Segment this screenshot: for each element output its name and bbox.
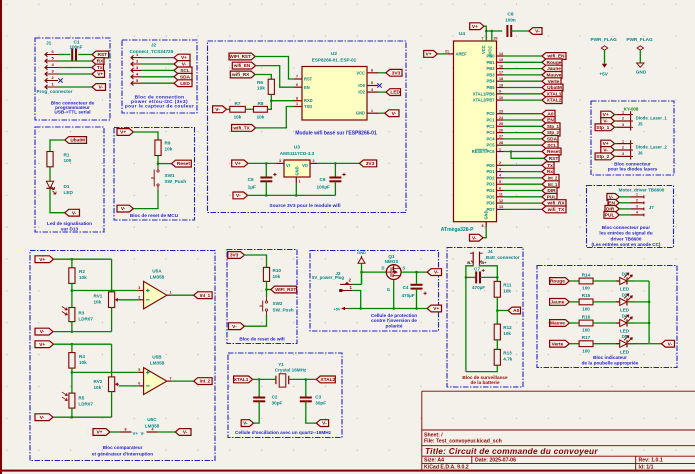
svg-text:PC3: PC3: [487, 130, 496, 135]
svg-text:6: 6: [296, 83, 298, 87]
wire to U5B +in: [72, 371, 139, 373]
wire D2 to bus: [627, 280, 649, 282]
svg-text:GND: GND: [294, 166, 299, 175]
junction divider 2: [71, 371, 74, 374]
wire C7 right: [480, 276, 497, 278]
label PUL: [542, 193, 557, 200]
junction C2 top: [258, 378, 261, 381]
svg-text:VCC: VCC: [356, 70, 365, 75]
svg-text:2: 2: [622, 117, 624, 121]
wire R10 to SW2: [266, 281, 268, 297]
svg-text:18: 18: [499, 77, 503, 81]
label RX: [92, 58, 104, 65]
wire V- to R7: [227, 108, 230, 110]
svg-text:pour le capteur de couleur: pour le capteur de couleur: [125, 104, 194, 110]
svg-text:100nF: 100nF: [70, 45, 83, 50]
wire to C7 left: [466, 276, 476, 278]
junction C7 left: [465, 276, 468, 279]
label Reset: [542, 148, 561, 155]
label Tx: [542, 162, 554, 169]
U4 pin 19: [497, 87, 504, 89]
svg-text:1: 1: [296, 102, 298, 106]
svg-text:V-: V-: [243, 421, 248, 427]
wire to C2: [258, 379, 260, 397]
svg-text:15: 15: [499, 58, 503, 62]
svg-text:Rouge: Rouge: [550, 279, 565, 285]
svg-text:R2: R2: [79, 269, 85, 274]
svg-text:R16: R16: [582, 314, 591, 319]
svg-text:U4: U4: [459, 31, 465, 37]
wire Y1 to XTAL2: [289, 378, 317, 380]
svg-text:3: 3: [622, 123, 624, 127]
wire R14 to D2: [593, 280, 620, 282]
svg-text:D2: D2: [622, 271, 628, 276]
label WIFI_RST: [229, 53, 255, 60]
resistor R1: [47, 152, 53, 167]
connector J1 pin 3: [45, 72, 58, 76]
wire V- to J7: [619, 196, 630, 198]
label V-: [35, 328, 53, 335]
wire J4- down: [466, 265, 473, 372]
label V-: [229, 323, 245, 330]
connector J5 pin 3: [617, 126, 631, 128]
wire D4 to bus: [627, 322, 649, 324]
label Rouge: [542, 59, 562, 66]
wire flag to +5V: [604, 50, 606, 64]
wire to C6: [334, 163, 336, 177]
svg-text:4.7k: 4.7k: [503, 357, 512, 362]
wire PB5 to UbatM: [504, 87, 543, 89]
wire J4+ to R11: [480, 265, 498, 282]
svg-text:XTAL1: XTAL1: [234, 377, 249, 383]
U5B pin 5: [139, 371, 144, 373]
label Int_2: [194, 378, 212, 385]
svg-text:Bloc de reset de wifi: Bloc de reset de wifi: [239, 336, 284, 341]
svg-text:PB2: PB2: [487, 66, 496, 71]
svg-text:V+: V+: [235, 161, 241, 167]
wire to C5: [265, 163, 267, 177]
wire V- rail: [248, 194, 336, 196]
svg-text:V-: V-: [322, 421, 327, 427]
power symbol +5V arrow: [602, 64, 607, 68]
svg-text:V+: V+: [120, 130, 126, 136]
connector J5 pin 1: [617, 114, 631, 116]
svg-text:XTAL2: XTAL2: [547, 98, 562, 104]
wire PD5 to PUL: [504, 196, 543, 198]
svg-text:17: 17: [499, 71, 503, 75]
wire J1.1 to V-: [58, 86, 92, 88]
junction GND-D node: [360, 271, 363, 274]
wire EN to J7: [619, 202, 630, 204]
capacitor C5: [260, 173, 276, 181]
label V-: [241, 420, 253, 427]
svg-text:V-: V-: [668, 341, 673, 347]
wire R3 to rail: [71, 322, 73, 332]
svg-text:R13: R13: [503, 351, 512, 356]
svg-text:SW_Push: SW_Push: [165, 179, 187, 184]
svg-text:8: 8: [125, 428, 127, 432]
svg-text:100n: 100n: [505, 18, 516, 23]
svg-text:R5: R5: [78, 396, 84, 401]
label V-: [316, 420, 328, 427]
svg-text:470µF: 470µF: [402, 293, 415, 298]
svg-text:WIFI_RST: WIFI_RST: [229, 54, 251, 59]
junction AVCC node: [491, 30, 494, 33]
label XTAL2: [542, 97, 562, 104]
svg-text:de la batterie: de la batterie: [471, 380, 500, 385]
svg-text:RESET/PC6: RESET/PC6: [472, 149, 495, 154]
svg-text:J5: J5: [638, 122, 643, 127]
junction C6 top: [334, 162, 337, 165]
svg-text:16: 16: [499, 64, 503, 68]
label Verte: [542, 78, 561, 85]
resistor R14: [579, 278, 593, 284]
label wifi_EN: [232, 62, 255, 69]
svg-text:+5V: +5V: [599, 72, 608, 77]
U5B pin 7: [167, 380, 172, 382]
page border bottom: [0, 470, 695, 472]
wire R7 to R8: [245, 108, 253, 110]
svg-text:LED: LED: [620, 287, 630, 292]
junction C5 bottom: [265, 194, 268, 197]
svg-text:File: Test_convoyeur.kicad_sch: File: Test_convoyeur.kicad_sch: [424, 439, 502, 445]
led D4: [616, 314, 633, 326]
svg-text:10: 10: [499, 96, 503, 100]
connector J2 pin 1: [131, 55, 141, 59]
capacitor C4: [411, 285, 427, 295]
connector J1 pin 4: [45, 65, 58, 69]
wire 3V3 to R10: [244, 255, 266, 267]
svg-text:GND: GND: [357, 250, 366, 255]
label V+: [35, 341, 54, 348]
svg-text:3: 3: [622, 152, 624, 156]
svg-text:Jaune: Jaune: [551, 300, 565, 306]
svg-text:Reset: Reset: [177, 161, 190, 167]
wire Stp_2 to J6: [615, 155, 617, 157]
svg-text:les entrées de signal du: les entrées de signal du: [599, 231, 652, 236]
wire RV2 to rail: [111, 392, 113, 418]
svg-text:J6: J6: [638, 151, 643, 156]
svg-text:V+: V+: [96, 430, 102, 436]
svg-text:C7: C7: [474, 267, 480, 272]
wire RESET/PC6 to Reset: [504, 151, 543, 153]
svg-text:25: 25: [499, 122, 503, 126]
svg-text:PB4: PB4: [487, 79, 496, 84]
connector J6 pin 1: [617, 143, 631, 145]
potentiometer RV2: [109, 377, 119, 392]
U4 pin 10: [497, 99, 504, 101]
resistor R7: [230, 106, 246, 112]
label LED: [386, 89, 401, 96]
U2 right pin 3: [367, 91, 378, 93]
svg-text:R11: R11: [503, 283, 512, 288]
label SDA: [174, 73, 192, 80]
label Mauve: [550, 320, 570, 327]
svg-text:2: 2: [499, 161, 501, 165]
svg-text:24: 24: [499, 116, 503, 120]
U4 pin 17: [497, 74, 504, 76]
svg-text:Stp_1: Stp_1: [547, 124, 560, 129]
svg-text:PB5: PB5: [487, 85, 496, 90]
svg-text:Cellule d'oscillation avec un: Cellule d'oscillation avec un quartz--16…: [235, 430, 332, 435]
wire GND stem: [361, 263, 363, 284]
svg-text:7: 7: [296, 75, 298, 79]
label wifi_RX: [230, 71, 255, 78]
resistor R8: [254, 106, 268, 112]
wire R13 to rail: [466, 365, 497, 371]
svg-text:100: 100: [582, 307, 590, 312]
svg-text:wifi_EN: wifi_EN: [547, 54, 566, 59]
svg-text:Stp_1: Stp_1: [596, 125, 609, 131]
svg-text:Sheet: /: Sheet: /: [424, 432, 443, 438]
wire PB2 to Jaune: [504, 68, 543, 70]
wire J3.2 to GND node: [353, 283, 361, 285]
svg-text:A0: A0: [513, 308, 519, 314]
svg-text:PB0: PB0: [487, 54, 496, 59]
svg-text:Size: A4: Size: A4: [424, 458, 444, 464]
svg-text:4: 4: [636, 211, 638, 215]
junction C3 top: [305, 378, 308, 381]
U4 pin 5: [497, 183, 504, 185]
power flag PWR_FLAG GND: [637, 46, 643, 50]
wire R15 to D3: [593, 301, 620, 303]
U2 right pin 5: [367, 85, 378, 87]
svg-text:J4: J4: [488, 249, 494, 254]
label wifi_TX: [542, 206, 566, 213]
wire RESET to RST: [511, 152, 544, 159]
connector J1 pin 2: [45, 78, 58, 82]
svg-text:sur D13: sur D13: [61, 226, 79, 231]
svg-text:XTAL2/PB7: XTAL2/PB7: [473, 98, 495, 103]
label V+: [427, 305, 441, 312]
svg-text:2: 2: [313, 159, 315, 163]
wire V+ to U3 VI: [248, 162, 277, 164]
wire U3 GND to rail: [295, 183, 297, 195]
wire PB4 to Verte: [504, 80, 543, 82]
U5A minus mark: [146, 299, 150, 301]
U4 pin 2: [497, 164, 504, 166]
connector J6 body: [631, 140, 633, 159]
svg-text:driver TB6600: driver TB6600: [610, 236, 641, 241]
svg-text:PC0: PC0: [487, 111, 496, 116]
U2 left pin 8: [294, 100, 302, 102]
svg-text:12: 12: [499, 199, 503, 203]
svg-text:10k: 10k: [79, 360, 87, 365]
svg-text:contre l'inversion de: contre l'inversion de: [371, 318, 417, 323]
wire to A0: [497, 310, 508, 312]
svg-text:Bloc de reset de MCU: Bloc de reset de MCU: [130, 213, 179, 218]
svg-text:Y1: Y1: [278, 362, 284, 367]
svg-text:Mauve: Mauve: [550, 321, 565, 327]
label wifi_RX: [542, 200, 566, 207]
U4 pin 13: [497, 208, 504, 210]
svg-text:4: 4: [152, 428, 154, 432]
svg-text:pour les diodes lasers: pour les diodes lasers: [608, 167, 658, 172]
note box surveillance batterie: [447, 248, 523, 388]
wire J1.4 to Tx: [58, 67, 92, 69]
svg-text:U3: U3: [294, 145, 300, 151]
wire +5V rail: [348, 308, 427, 310]
junction R5 bottom: [71, 416, 74, 419]
wire D1 to V-: [50, 189, 65, 213]
svg-text:Verte: Verte: [552, 341, 564, 347]
wire R1 to D1: [49, 167, 51, 182]
svg-text:10k: 10k: [79, 275, 87, 280]
power symbol GND: [358, 256, 365, 263]
label EN: [608, 199, 619, 206]
label Mauve: [542, 72, 562, 79]
label Stp_2: [542, 129, 560, 136]
wire Verte to R17: [569, 343, 579, 345]
wire PD4 to DIR: [504, 190, 543, 192]
U4 pin 27: [497, 138, 504, 140]
svg-text:V-: V-: [535, 29, 540, 35]
connector J7 pin 4: [631, 214, 644, 216]
svg-text:Int_2: Int_2: [200, 379, 211, 384]
svg-text:C6: C6: [320, 177, 326, 182]
wire LED cathode bus: [648, 281, 650, 344]
svg-text:Int_1: Int_1: [200, 293, 211, 298]
svg-text:et générateur d'interruption: et générateur d'interruption: [92, 451, 153, 456]
svg-text:V+: V+: [39, 257, 45, 263]
U5B minus mark: [146, 385, 150, 387]
svg-text:LDR07: LDR07: [78, 317, 93, 322]
svg-text:LM358: LM358: [150, 275, 165, 280]
wire R6 to U2 RXD: [271, 94, 294, 100]
svg-text:8: 8: [296, 96, 298, 100]
label Stp_1: [542, 123, 560, 130]
note box led signalisation: [35, 127, 104, 232]
transistor Q1: [386, 265, 401, 282]
svg-text:100: 100: [582, 348, 590, 353]
wire V+ to J5: [615, 114, 617, 116]
svg-text:26: 26: [499, 128, 503, 132]
connector J1 pin 6: [45, 52, 58, 56]
wire V+ to J6: [615, 143, 617, 145]
resistor R13: [494, 349, 500, 365]
label Int_2: [542, 175, 559, 182]
wire V+ top rail 1: [54, 258, 112, 260]
wire PD7 to wifi_TX: [504, 208, 543, 210]
label V-: [233, 192, 248, 199]
wire R12 to R13: [496, 340, 498, 350]
U4 pin 15: [497, 61, 504, 63]
led D2: [616, 272, 633, 284]
photoresistor R5: [62, 392, 75, 408]
connector J7 pin 3: [631, 208, 644, 210]
no-connect J1 pin 2: [58, 78, 62, 82]
label wifi_EN: [542, 53, 566, 60]
svg-text:13: 13: [499, 205, 503, 209]
svg-text:PC5: PC5: [487, 143, 496, 148]
label V-: [470, 234, 484, 241]
junction C4 bottom: [415, 307, 418, 310]
svg-text:wifi_TX: wifi_TX: [547, 207, 565, 212]
label Stp_2: [595, 153, 614, 160]
svg-text:R1: R1: [64, 153, 70, 158]
svg-text:3: 3: [499, 167, 501, 171]
capacitor C6: [329, 173, 345, 181]
U4 pin 26: [497, 132, 504, 134]
svg-text:SW1: SW1: [165, 173, 176, 178]
wire C6 to rail: [334, 181, 336, 195]
svg-text:V-: V-: [472, 235, 477, 241]
svg-text:3: 3: [138, 286, 140, 290]
wire J2.4 to SDA: [141, 76, 174, 78]
resistor R11: [494, 281, 500, 297]
svg-text:LED: LED: [620, 308, 630, 313]
svg-text:28: 28: [499, 141, 503, 145]
svg-text:C5: C5: [248, 177, 254, 182]
wire R2 to R3: [71, 283, 73, 307]
note box comparateur: [30, 251, 215, 461]
wire to C8: [486, 30, 502, 32]
connector J6 pin 3: [617, 155, 631, 157]
svg-text:3V3: 3V3: [230, 253, 239, 259]
U4 pin 25: [497, 125, 504, 127]
svg-text:10k: 10k: [503, 331, 511, 336]
svg-text:WIFI_RST: WIFI_RST: [275, 287, 296, 292]
svg-text:Reset: Reset: [547, 149, 560, 155]
wire V- rail 1: [53, 331, 112, 333]
svg-text:1: 1: [622, 139, 624, 143]
U2 left pin 1: [294, 106, 302, 108]
svg-text:V-: V-: [141, 431, 146, 436]
svg-text:RXD: RXD: [304, 98, 313, 103]
U4 pin 9: [497, 93, 504, 95]
U2 left pin 7: [294, 78, 302, 80]
svg-text:19: 19: [499, 83, 503, 87]
svg-text:1µF: 1µF: [248, 185, 256, 190]
op-amp U5B: [144, 368, 167, 395]
IC U4 ATmega328-P: [454, 41, 497, 222]
page border left: [0, 0, 2, 474]
no-connect U2 IO0: [377, 83, 381, 87]
svg-text:RV2: RV2: [94, 379, 103, 384]
label A0: [542, 110, 555, 117]
svg-text:PC4: PC4: [487, 136, 496, 141]
wire to R2: [71, 259, 73, 268]
svg-text:wifi_TX: wifi_TX: [232, 126, 250, 131]
svg-text:V+: V+: [39, 342, 45, 348]
label V+: [601, 140, 615, 147]
svg-text:V-: V-: [392, 111, 397, 117]
svg-text:KY-008: KY-008: [624, 106, 639, 111]
svg-text:USB->TTL serial: USB->TTL serial: [54, 110, 90, 115]
svg-text:PC2: PC2: [487, 124, 496, 129]
wire V+ top rail 2: [54, 343, 112, 345]
wire PUL to J7: [619, 214, 630, 216]
wire PC3 to Stp_2: [504, 132, 543, 134]
U4 pin 6: [497, 190, 504, 192]
svg-text:DIode_Laser_1: DIode_Laser_1: [636, 116, 668, 121]
wire Q1 gate down: [393, 281, 395, 309]
label DIR: [605, 206, 619, 213]
svg-text:7: 7: [170, 377, 172, 381]
svg-text:AREF: AREF: [456, 52, 468, 57]
junction R2 top: [71, 258, 74, 261]
svg-text:V-: V-: [40, 415, 45, 421]
svg-text:5: 5: [499, 180, 501, 184]
svg-text:6: 6: [499, 186, 501, 190]
wire PD3 to Int_1: [504, 183, 543, 185]
connector J2 pin 4: [131, 75, 141, 79]
wire to AVCC: [491, 31, 493, 41]
svg-text:PD5: PD5: [487, 194, 496, 199]
connector J6 pin 2: [617, 149, 631, 151]
svg-text:PD3: PD3: [487, 182, 496, 187]
svg-text:LED: LED: [620, 349, 630, 354]
